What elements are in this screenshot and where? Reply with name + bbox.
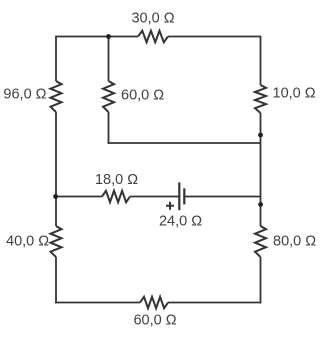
resistor 10.0 ohm (right upper) <box>255 85 266 113</box>
junction dot node C (left middle) <box>53 194 58 199</box>
svg-text:10,0 Ω: 10,0 Ω <box>273 85 316 101</box>
wire battery row right <box>184 196 260 198</box>
wire right middle <box>260 113 262 226</box>
wire left lower <box>55 257 57 303</box>
resistor 18.0 ohm <box>102 191 130 203</box>
wire middle branch lower vertical <box>108 112 110 144</box>
resistor 96.0 ohm (left upper) <box>51 81 62 112</box>
resistor 60.0 ohm (bottom) <box>140 297 168 309</box>
wire left upper <box>55 36 57 81</box>
svg-text:60,0 Ω: 60,0 Ω <box>121 88 164 104</box>
resistor 80.0 ohm (right lower) <box>255 226 266 257</box>
resistor 40.0 ohm (left lower) <box>51 226 62 257</box>
battery V1 positive plate (long) <box>178 182 180 210</box>
svg-text:30,0 Ω: 30,0 Ω <box>131 11 174 27</box>
battery plus sign <box>166 202 174 210</box>
wire middle branch vertical <box>108 37 110 82</box>
wire left middle <box>55 112 57 226</box>
wire top-right segment <box>168 36 261 38</box>
svg-text:40,0 Ω: 40,0 Ω <box>6 234 49 250</box>
wire middle branch horizontal return <box>108 142 261 144</box>
wire right upper <box>260 36 262 85</box>
wire battery row middle <box>130 196 179 198</box>
svg-text:96,0 Ω: 96,0 Ω <box>3 87 46 103</box>
svg-text:80,0 Ω: 80,0 Ω <box>273 234 316 250</box>
wire right lower <box>260 257 262 303</box>
wire bottom-right segment <box>168 302 261 304</box>
svg-text:24,0 Ω: 24,0 Ω <box>159 214 202 230</box>
wire battery row left <box>56 196 102 198</box>
resistor 30.0 ohm (top) <box>138 31 168 43</box>
junction dot node D (right middle) <box>258 202 263 207</box>
junction dot node A (top) <box>106 34 111 39</box>
battery V1 negative plate (short) <box>183 188 185 204</box>
wire top-left segment <box>56 36 138 38</box>
junction dot node B (right upper) <box>258 133 263 138</box>
resistor 60.0 ohm (middle branch) <box>103 81 114 112</box>
wire bottom-left segment <box>55 302 140 304</box>
svg-text:18,0 Ω: 18,0 Ω <box>95 172 138 188</box>
svg-text:60,0 Ω: 60,0 Ω <box>133 313 176 329</box>
